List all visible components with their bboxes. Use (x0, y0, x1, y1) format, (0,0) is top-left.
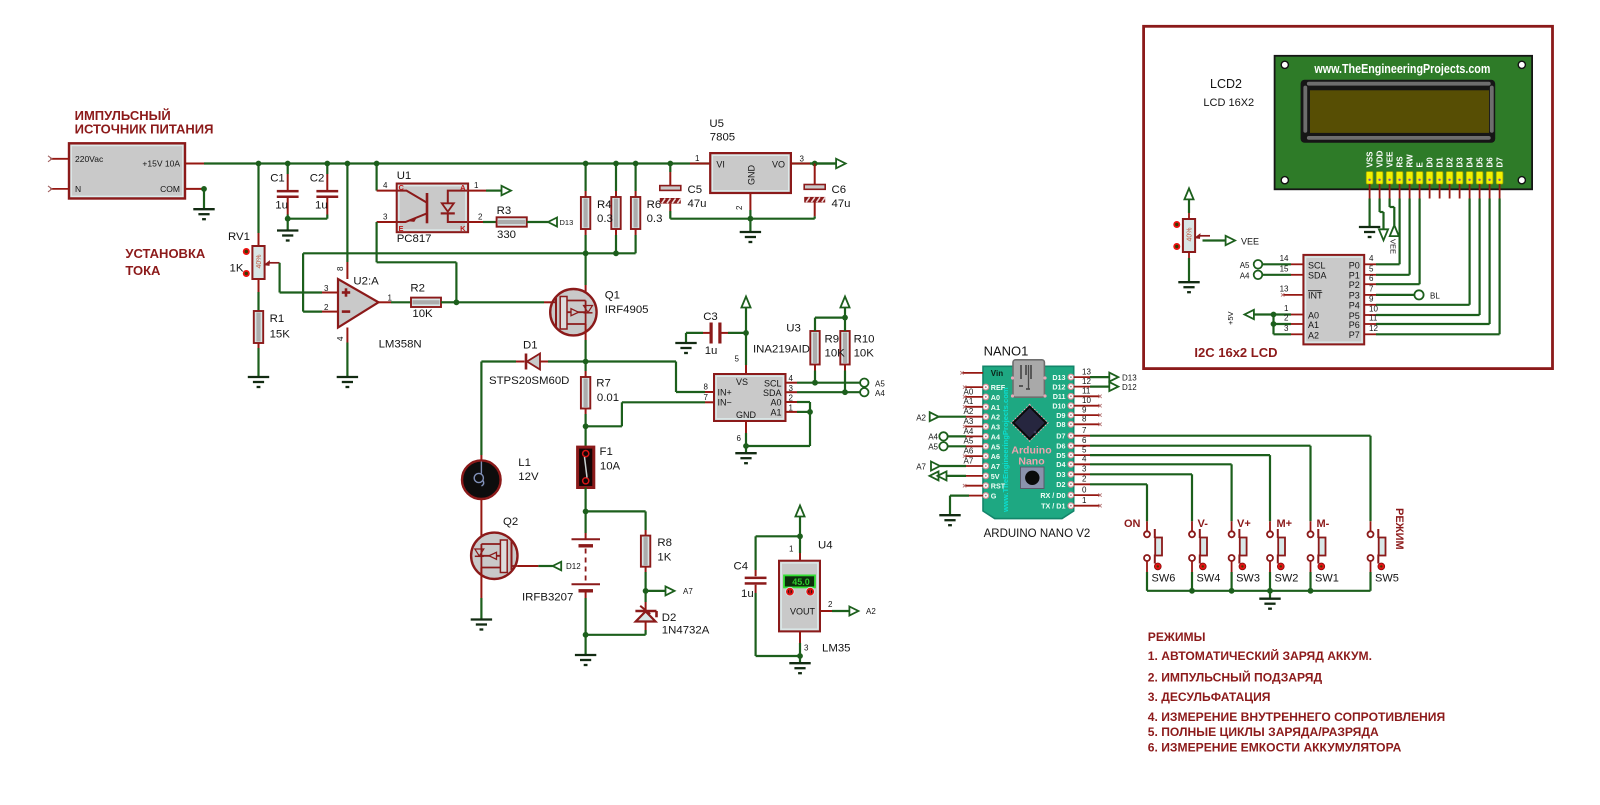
svg-text:15: 15 (1280, 264, 1289, 273)
svg-text:D3: D3 (1056, 470, 1065, 479)
svg-text:D4: D4 (1466, 157, 1475, 168)
svg-text:1: 1 (695, 154, 700, 163)
svg-text:220Vac: 220Vac (75, 154, 104, 164)
svg-text:LCD2: LCD2 (1210, 77, 1242, 91)
svg-text:6. ИЗМЕРЕНИЕ ЕМКОСТИ АККУМУЛЯТ: 6. ИЗМЕРЕНИЕ ЕМКОСТИ АККУМУЛЯТОРА (1148, 741, 1402, 755)
svg-text:15K: 15K (270, 329, 291, 341)
svg-text:G: G (991, 492, 997, 501)
svg-text:SCL: SCL (764, 379, 782, 389)
svg-text:9: 9 (1082, 406, 1087, 415)
svg-text:4: 4 (383, 181, 388, 190)
svg-text:A5: A5 (964, 437, 974, 446)
svg-text:2: 2 (1284, 314, 1289, 323)
svg-text:УСТАНОВКА: УСТАНОВКА (125, 246, 205, 261)
svg-text:R3: R3 (497, 205, 512, 217)
svg-text:RST: RST (991, 482, 1006, 491)
svg-text:U5: U5 (709, 118, 724, 130)
svg-text:D13: D13 (560, 218, 574, 227)
svg-text:STPS20SM60D: STPS20SM60D (489, 375, 569, 387)
svg-text:1: 1 (789, 545, 794, 554)
svg-text:LCD 16X2: LCD 16X2 (1203, 97, 1254, 109)
svg-text:IRFB3207: IRFB3207 (522, 592, 573, 604)
svg-text:N: N (75, 184, 81, 194)
svg-text:D2: D2 (1056, 480, 1065, 489)
svg-text:D2: D2 (662, 612, 677, 624)
svg-text:RX / D0: RX / D0 (1040, 491, 1065, 500)
svg-text:A2: A2 (866, 607, 876, 616)
svg-text:1u: 1u (275, 200, 288, 212)
svg-text:SW1: SW1 (1315, 573, 1339, 585)
svg-text:LM358N: LM358N (379, 339, 422, 351)
svg-text:0.01: 0.01 (597, 392, 619, 404)
svg-text:2: 2 (478, 213, 483, 222)
svg-text:SW2: SW2 (1275, 573, 1299, 585)
svg-text:ИСТОЧНИК ПИТАНИЯ: ИСТОЧНИК ПИТАНИЯ (75, 122, 214, 137)
svg-text:D3: D3 (1456, 157, 1465, 168)
svg-text:7: 7 (704, 393, 709, 402)
svg-text:РЕЖИМЫ: РЕЖИМЫ (1148, 630, 1206, 644)
svg-text:INT: INT (1308, 291, 1323, 301)
svg-text:REF: REF (991, 383, 1006, 392)
svg-text:1u: 1u (741, 588, 754, 600)
svg-text:2. ИМПУЛЬСНЫЙ ПОДЗАРЯД: 2. ИМПУЛЬСНЫЙ ПОДЗАРЯД (1148, 670, 1323, 685)
svg-text:0.3: 0.3 (647, 213, 663, 225)
svg-text:R7: R7 (596, 378, 611, 390)
svg-text:C4: C4 (734, 561, 749, 573)
svg-text:12: 12 (1369, 324, 1378, 333)
svg-text:1K: 1K (657, 552, 671, 564)
svg-text:A4: A4 (875, 389, 885, 398)
svg-text:A1: A1 (770, 407, 781, 417)
svg-text:10K: 10K (412, 308, 433, 320)
svg-text:2: 2 (324, 303, 329, 312)
svg-text:A4: A4 (1240, 272, 1250, 281)
svg-text:R9: R9 (825, 334, 840, 346)
svg-text:C6: C6 (832, 184, 847, 196)
svg-text:VEE: VEE (1388, 239, 1397, 254)
svg-text:D10: D10 (1052, 402, 1065, 411)
svg-text:14: 14 (1280, 254, 1289, 263)
svg-text:A6: A6 (964, 447, 974, 456)
svg-text:D9: D9 (1056, 411, 1065, 420)
svg-text:13: 13 (1082, 368, 1091, 377)
svg-text:D8: D8 (1056, 420, 1065, 429)
svg-text:10K: 10K (825, 348, 846, 360)
svg-text:6: 6 (1369, 274, 1374, 283)
svg-text:1u: 1u (705, 345, 718, 357)
svg-text:10A: 10A (600, 461, 621, 473)
svg-text:D5: D5 (1056, 451, 1065, 460)
svg-text:U2:A: U2:A (353, 276, 379, 288)
svg-text:C1: C1 (270, 173, 285, 185)
svg-text:R4: R4 (597, 199, 612, 211)
svg-text:NANO1: NANO1 (984, 344, 1029, 359)
svg-text:SCL: SCL (1308, 260, 1326, 270)
svg-text:U4: U4 (818, 540, 833, 552)
svg-text:INA219AID: INA219AID (753, 344, 810, 356)
svg-text:A2: A2 (991, 413, 1000, 422)
svg-text:R8: R8 (657, 537, 672, 549)
svg-text:P4: P4 (1349, 301, 1360, 311)
svg-text:P2: P2 (1349, 280, 1360, 290)
svg-text:A5: A5 (928, 442, 938, 451)
svg-text:3: 3 (1082, 465, 1087, 474)
svg-text:A0: A0 (770, 398, 781, 408)
svg-text:VO: VO (772, 160, 785, 170)
svg-text:D13: D13 (1052, 373, 1065, 382)
svg-text:P0: P0 (1349, 260, 1360, 270)
svg-text:+15V 10A: +15V 10A (142, 159, 180, 169)
svg-text:5. ПОЛНЫЕ ЦИКЛЫ ЗАРЯДА/РАЗРЯДА: 5. ПОЛНЫЕ ЦИКЛЫ ЗАРЯДА/РАЗРЯДА (1148, 725, 1379, 739)
svg-text:1N4732A: 1N4732A (662, 625, 710, 637)
svg-text:K: K (460, 224, 466, 233)
svg-text:5: 5 (1369, 264, 1374, 273)
svg-text:45.0: 45.0 (792, 577, 810, 587)
svg-text:V-: V- (1198, 518, 1209, 530)
svg-text:Nano: Nano (1018, 456, 1044, 468)
svg-text:40%: 40% (256, 254, 263, 268)
svg-text:1: 1 (1284, 304, 1289, 313)
svg-text:VEE: VEE (1241, 237, 1259, 247)
svg-text:5: 5 (1082, 446, 1087, 455)
svg-text:3: 3 (800, 155, 805, 164)
svg-text:4: 4 (336, 336, 345, 341)
svg-text:D7: D7 (1056, 432, 1065, 441)
svg-text:A7: A7 (964, 456, 974, 465)
svg-text:P6: P6 (1349, 320, 1360, 330)
svg-text:13: 13 (1280, 284, 1289, 293)
svg-text:6: 6 (1082, 436, 1087, 445)
svg-text:C3: C3 (703, 311, 718, 323)
svg-text:SW5: SW5 (1375, 573, 1399, 585)
svg-text:8: 8 (336, 266, 345, 271)
svg-text:3: 3 (383, 213, 388, 222)
svg-text:VSS: VSS (1366, 151, 1375, 168)
svg-text:3: 3 (804, 644, 809, 653)
svg-text:A1: A1 (964, 397, 974, 406)
svg-text:Vin: Vin (991, 369, 1003, 378)
svg-text:A0: A0 (964, 387, 974, 396)
svg-text:U3: U3 (786, 323, 801, 335)
svg-text:A0: A0 (991, 393, 1000, 402)
svg-text:SW4: SW4 (1197, 573, 1221, 585)
svg-text:ARDUINO NANO V2: ARDUINO NANO V2 (984, 528, 1091, 540)
svg-text:D12: D12 (1052, 382, 1065, 391)
svg-text:1: 1 (1082, 496, 1087, 505)
svg-text:RS: RS (1396, 156, 1405, 168)
svg-text:D0: D0 (1426, 157, 1435, 168)
svg-text:A2: A2 (916, 414, 926, 423)
svg-text:www.TheEngineeringProjects.com: www.TheEngineeringProjects.com (1001, 387, 1010, 513)
svg-text:A1: A1 (1308, 320, 1319, 330)
svg-text:I2C 16x2 LCD: I2C 16x2 LCD (1194, 345, 1277, 360)
svg-text:40%: 40% (1187, 227, 1194, 241)
svg-text:8: 8 (704, 383, 709, 392)
svg-text:VS: VS (736, 377, 748, 387)
svg-text:D13: D13 (1122, 373, 1137, 382)
svg-text:7: 7 (1369, 284, 1374, 293)
svg-text:M+: M+ (1277, 518, 1293, 530)
svg-text:10: 10 (1369, 305, 1378, 314)
svg-text:5: 5 (735, 355, 740, 364)
svg-text:E: E (399, 224, 404, 233)
svg-text:РЕЖИМ: РЕЖИМ (1393, 508, 1405, 550)
svg-text:D5: D5 (1476, 157, 1485, 168)
svg-text:A0: A0 (1308, 310, 1319, 320)
svg-text:330: 330 (497, 229, 516, 241)
svg-text:10K: 10K (854, 348, 875, 360)
svg-text:A7: A7 (991, 462, 1000, 471)
svg-text:A5: A5 (875, 380, 885, 389)
svg-text:12: 12 (1082, 377, 1091, 386)
svg-text:RV1: RV1 (228, 231, 250, 243)
svg-text:11: 11 (1369, 314, 1378, 323)
svg-text:VEE: VEE (1386, 151, 1395, 168)
svg-text:D2: D2 (1446, 157, 1455, 168)
svg-text:A3: A3 (964, 417, 974, 426)
svg-text:TX / D1: TX / D1 (1041, 502, 1065, 511)
svg-text:2: 2 (1082, 475, 1087, 484)
svg-text:P3: P3 (1349, 291, 1360, 301)
svg-text:D6: D6 (1486, 157, 1495, 168)
svg-text:A3: A3 (991, 423, 1000, 432)
svg-text:10: 10 (1082, 396, 1091, 405)
svg-text:M-: M- (1317, 518, 1330, 530)
svg-text:SW3: SW3 (1236, 573, 1260, 585)
svg-text:Q2: Q2 (503, 516, 518, 528)
svg-text:1. АВТОМАТИЧЕСКИЙ ЗАРЯД АККУМ.: 1. АВТОМАТИЧЕСКИЙ ЗАРЯД АККУМ. (1148, 648, 1372, 663)
svg-text:C2: C2 (310, 173, 325, 185)
svg-text:LM35: LM35 (822, 643, 851, 655)
svg-text:GND: GND (736, 410, 757, 420)
svg-text:D12: D12 (1122, 383, 1137, 392)
svg-text:SDA: SDA (763, 388, 782, 398)
svg-text:D12: D12 (566, 562, 581, 571)
svg-text:SW6: SW6 (1152, 573, 1176, 585)
svg-text:PC817: PC817 (397, 233, 432, 245)
svg-text:12V: 12V (518, 471, 539, 483)
svg-text:R2: R2 (410, 283, 425, 295)
svg-text:IN−: IN− (718, 398, 732, 408)
svg-text:7805: 7805 (710, 132, 735, 144)
svg-text:BL: BL (1430, 292, 1440, 301)
svg-text:A7: A7 (683, 587, 693, 596)
svg-text:D1: D1 (523, 340, 538, 352)
svg-text:D7: D7 (1496, 157, 1505, 168)
svg-text:C5: C5 (688, 184, 703, 196)
svg-text:0.3: 0.3 (597, 213, 613, 225)
svg-text:11: 11 (1082, 387, 1091, 396)
svg-text:P7: P7 (1349, 330, 1360, 340)
svg-text:A2: A2 (964, 407, 974, 416)
svg-text:COM: COM (160, 184, 180, 194)
svg-text:47u: 47u (832, 198, 851, 210)
svg-text:1u: 1u (315, 200, 328, 212)
svg-text:IRF4905: IRF4905 (605, 304, 649, 316)
svg-text:GND: GND (747, 165, 757, 186)
svg-text:+5V: +5V (1226, 311, 1235, 325)
svg-text:D1: D1 (1436, 157, 1445, 168)
svg-text:R10: R10 (854, 334, 875, 346)
svg-text:3: 3 (1284, 324, 1289, 333)
svg-text:A7: A7 (916, 463, 926, 472)
svg-text:3. ДЕСУЛЬФАТАЦИЯ: 3. ДЕСУЛЬФАТАЦИЯ (1148, 690, 1271, 704)
svg-text:A4: A4 (964, 427, 974, 436)
svg-text:9: 9 (1369, 294, 1374, 303)
svg-text:1: 1 (388, 294, 393, 303)
svg-text:ТОКА: ТОКА (125, 263, 161, 278)
svg-text:A2: A2 (1308, 330, 1319, 340)
svg-text:F1: F1 (600, 446, 613, 458)
svg-text:VOUT: VOUT (790, 607, 816, 617)
svg-text:VI: VI (716, 160, 725, 170)
svg-text:8: 8 (1082, 415, 1087, 424)
svg-text:A4: A4 (991, 432, 1000, 441)
svg-text:E: E (1416, 162, 1425, 168)
svg-text:7: 7 (1082, 426, 1087, 435)
svg-text:3: 3 (324, 284, 329, 293)
svg-text:D11: D11 (1053, 392, 1066, 401)
svg-text:5V: 5V (991, 472, 1000, 481)
svg-text:D6: D6 (1056, 442, 1065, 451)
svg-text:A5: A5 (1240, 261, 1250, 270)
svg-text:1: 1 (474, 181, 479, 190)
svg-text:U1: U1 (397, 170, 412, 182)
svg-text:VDD: VDD (1376, 150, 1385, 167)
svg-text:0: 0 (1082, 486, 1087, 495)
svg-text:2: 2 (828, 600, 833, 609)
svg-text:R6: R6 (647, 199, 662, 211)
svg-text:2: 2 (735, 205, 744, 210)
svg-text:A1: A1 (991, 403, 1000, 412)
svg-text:R1: R1 (270, 313, 285, 325)
svg-text:V+: V+ (1237, 518, 1251, 530)
svg-text:4: 4 (789, 374, 794, 383)
svg-text:47u: 47u (688, 198, 707, 210)
svg-text:A4: A4 (928, 432, 938, 441)
svg-text:A6: A6 (991, 452, 1000, 461)
svg-text:RW: RW (1406, 154, 1415, 168)
svg-text:4: 4 (1369, 254, 1374, 263)
svg-text:A5: A5 (991, 442, 1000, 451)
svg-text:IN+: IN+ (718, 388, 732, 398)
svg-text:SDA: SDA (1308, 271, 1327, 281)
svg-text:4: 4 (1082, 455, 1087, 464)
svg-text:D4: D4 (1056, 460, 1065, 469)
svg-text:ON: ON (1124, 518, 1141, 530)
svg-text:6: 6 (737, 434, 742, 443)
svg-text:1K: 1K (230, 263, 244, 275)
svg-text:4. ИЗМЕРЕНИЕ ВНУТРЕННЕГО СОПРО: 4. ИЗМЕРЕНИЕ ВНУТРЕННЕГО СОПРОТИВЛЕНИЯ (1148, 710, 1445, 724)
svg-text:www.TheEngineeringProjects.com: www.TheEngineeringProjects.com (1314, 62, 1491, 76)
svg-text:Q1: Q1 (605, 290, 620, 302)
svg-text:L1: L1 (518, 457, 531, 469)
